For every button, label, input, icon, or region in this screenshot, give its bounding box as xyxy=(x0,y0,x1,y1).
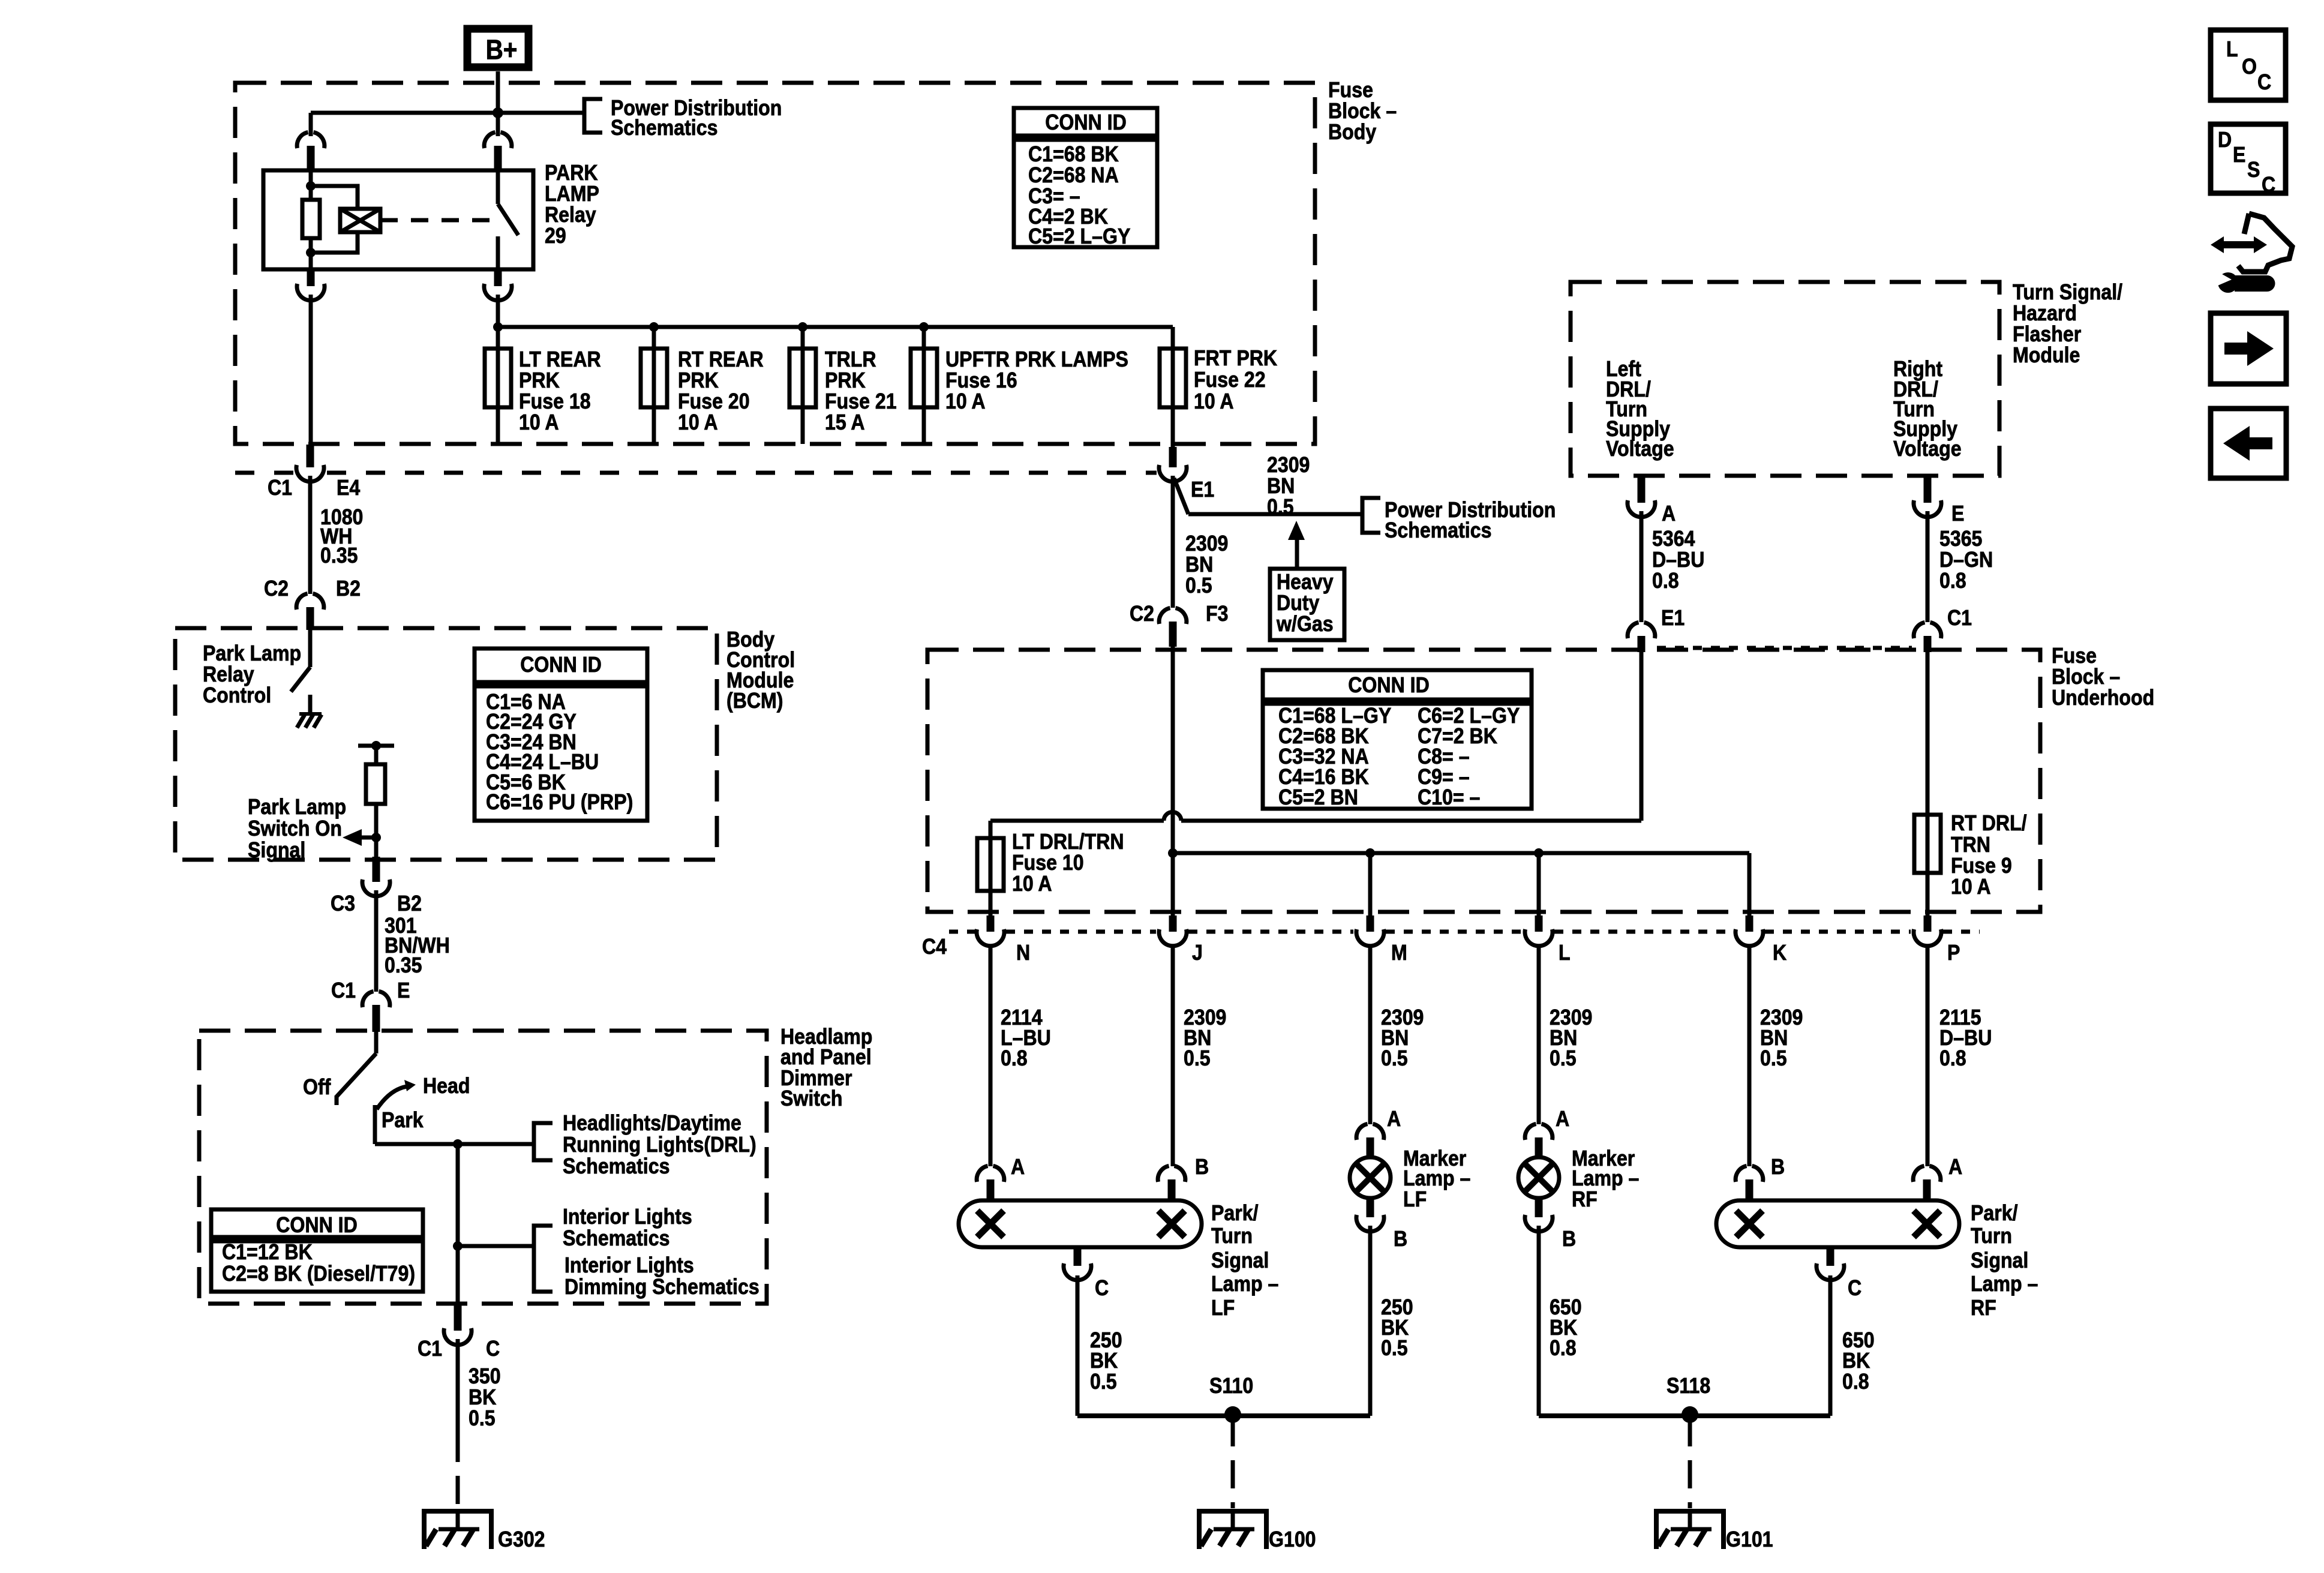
svg-text:Module: Module xyxy=(2013,343,2080,367)
ground G302 xyxy=(456,1509,460,1529)
svg-text:CONN ID: CONN ID xyxy=(276,1213,358,1237)
svg-text:C5=2 L–GY: C5=2 L–GY xyxy=(1028,224,1130,248)
svg-text:A: A xyxy=(1662,502,1676,526)
wire into relay switch connector xyxy=(496,113,500,136)
svg-text:M: M xyxy=(1391,941,1407,965)
wire from B+ down xyxy=(496,71,500,113)
ground G100 xyxy=(1231,1509,1235,1529)
svg-text:C2=8 BK (Diesel/T79): C2=8 BK (Diesel/T79) xyxy=(222,1262,415,1286)
svg-text:0.5: 0.5 xyxy=(1550,1046,1577,1070)
svg-text:Lamp –: Lamp – xyxy=(1211,1272,1278,1296)
underhood conn id table xyxy=(1263,670,1532,700)
turn signal/hazard flasher module dashed box xyxy=(1571,282,1999,476)
svg-text:RF: RF xyxy=(1572,1187,1598,1211)
svg-text:C3: C3 xyxy=(331,891,355,915)
wire J down to lamp B xyxy=(1171,945,1175,1166)
heavy duty w/gas box xyxy=(1270,569,1344,640)
svg-text:C4: C4 xyxy=(922,935,947,959)
svg-text:C: C xyxy=(2257,70,2271,94)
DRL feed bus (line B) xyxy=(1173,851,1749,855)
LF park/turn signal lamp body xyxy=(959,1200,1202,1247)
svg-text:Headlights/Daytime: Headlights/Daytime xyxy=(563,1111,741,1135)
S118 splice bus xyxy=(1539,1413,1830,1418)
connector below relay coil xyxy=(307,269,315,272)
wire 5365 down xyxy=(1926,511,1930,622)
svg-text:B2: B2 xyxy=(397,891,422,915)
svg-text:Running Lights(DRL): Running Lights(DRL) xyxy=(563,1133,756,1157)
headlamp dimmer switch dashed box xyxy=(199,1031,767,1304)
connector A (RF park/turn) xyxy=(1913,1166,1941,1182)
svg-text:A: A xyxy=(1011,1155,1025,1179)
wire 301 BN/WH down xyxy=(374,890,379,992)
svg-text:Schematics: Schematics xyxy=(563,1226,669,1250)
connector B (RF park/turn) xyxy=(1736,1166,1763,1182)
connector A (LF park/turn) xyxy=(977,1166,1004,1182)
wire E1 down to C2/F3 xyxy=(1171,476,1175,608)
dimmer conn id table xyxy=(211,1209,423,1237)
ground G101 xyxy=(1688,1509,1692,1529)
svg-text:0.8: 0.8 xyxy=(1001,1046,1028,1070)
off-page bracket (interior lights) xyxy=(534,1226,553,1292)
connector C2/F3 xyxy=(1159,608,1187,624)
S110 splice bus xyxy=(1077,1413,1370,1418)
LT DRL/TRN fuse 10 xyxy=(977,838,1004,891)
connector K xyxy=(1736,929,1763,946)
wire L down to marker lamp RF xyxy=(1537,945,1541,1124)
svg-text:C1=12 BK: C1=12 BK xyxy=(222,1240,313,1264)
wire across top of relay xyxy=(311,111,498,115)
connector C1 (underhood) xyxy=(1914,622,1941,638)
svg-text:10 A: 10 A xyxy=(519,410,559,434)
svg-text:10 A: 10 A xyxy=(1194,389,1234,413)
LOC icon box xyxy=(2211,30,2286,100)
svg-text:C1: C1 xyxy=(331,978,356,1002)
svg-text:Park: Park xyxy=(382,1108,424,1132)
hop over BCM feed wire xyxy=(1164,812,1181,821)
node junction at B+ tap xyxy=(493,107,503,118)
dimmer switch blade to Off xyxy=(337,1053,376,1105)
svg-text:E1: E1 xyxy=(1191,478,1214,502)
off-page bracket (power distribution top) xyxy=(584,99,602,133)
wire to interior lights bracket xyxy=(458,1244,534,1248)
fuse 18 xyxy=(496,327,500,349)
module connector E xyxy=(1924,476,1932,487)
svg-text:Schematics: Schematics xyxy=(563,1154,669,1178)
svg-text:K: K xyxy=(1773,941,1786,965)
svg-text:LF: LF xyxy=(1403,1187,1427,1211)
wire 350 BK down xyxy=(456,1339,460,1434)
wire from relay output to fuse bus xyxy=(496,295,500,327)
svg-text:J: J xyxy=(1192,941,1203,965)
svg-text:C2: C2 xyxy=(1130,602,1154,626)
svg-text:10 A: 10 A xyxy=(1951,875,1991,899)
signal resistor xyxy=(366,764,385,804)
fuse block underhood dashed box xyxy=(927,650,2040,912)
body control module dashed box xyxy=(175,628,717,860)
svg-text:0.8: 0.8 xyxy=(1939,569,1966,593)
svg-text:Signal: Signal xyxy=(1211,1248,1269,1272)
BCM conn id table xyxy=(475,649,647,682)
wire park contact to DRL bracket xyxy=(375,1142,534,1146)
service icon outline xyxy=(2238,214,2292,272)
connector B (marker LF) xyxy=(1367,1198,1374,1201)
wire C down to splice bus xyxy=(1828,1275,1833,1416)
svg-text:15 A: 15 A xyxy=(825,410,865,434)
svg-text:C1: C1 xyxy=(268,476,292,500)
park lamp relay 29 box xyxy=(263,170,533,269)
verticals from line B xyxy=(1171,853,1175,917)
svg-text:0.8: 0.8 xyxy=(1550,1336,1577,1360)
svg-text:10 A: 10 A xyxy=(678,410,718,434)
svg-text:B: B xyxy=(1195,1155,1209,1179)
svg-text:0.5: 0.5 xyxy=(1760,1046,1787,1070)
fuse 16 xyxy=(922,327,926,349)
svg-text:C: C xyxy=(1095,1276,1109,1300)
RF lamp filament X marks xyxy=(1736,1211,1762,1237)
LF lamp filament X marks xyxy=(977,1211,1004,1237)
connector C1/E4 xyxy=(307,445,314,451)
svg-text:G302: G302 xyxy=(498,1527,545,1551)
wire C down to splice bus xyxy=(1076,1275,1080,1416)
right arrow icon xyxy=(2211,313,2286,384)
BCM switch lower contact xyxy=(308,695,313,713)
wire from relay coil output down xyxy=(309,295,313,445)
marker lamp RF bulb xyxy=(1535,1154,1543,1158)
svg-text:F3: F3 xyxy=(1206,602,1228,626)
svg-text:E: E xyxy=(2233,143,2245,167)
svg-text:10 A: 10 A xyxy=(1012,872,1052,896)
service icon wrench xyxy=(2218,272,2238,293)
svg-text:S: S xyxy=(2247,158,2260,182)
fuse bus wire xyxy=(498,325,1173,329)
wire 1080 WH down xyxy=(308,476,313,594)
svg-text:C: C xyxy=(1848,1276,1861,1300)
svg-text:G100: G100 xyxy=(1269,1527,1316,1551)
svg-text:Control: Control xyxy=(203,683,271,707)
connector C1/C xyxy=(454,1304,462,1314)
svg-text:Head: Head xyxy=(423,1074,470,1098)
svg-text:Signal: Signal xyxy=(1971,1248,2028,1272)
svg-text:B: B xyxy=(1394,1227,1407,1251)
svg-text:C1: C1 xyxy=(1947,606,1972,630)
connector P xyxy=(1914,929,1941,946)
svg-text:0.8: 0.8 xyxy=(1842,1370,1869,1394)
relay coil symbol (box with X) xyxy=(340,209,380,232)
svg-text:A: A xyxy=(1948,1155,1962,1179)
svg-text:RF: RF xyxy=(1971,1296,1996,1320)
svg-text:Switch On: Switch On xyxy=(248,816,342,840)
park contact wire xyxy=(373,1105,377,1144)
svg-text:P: P xyxy=(1947,941,1960,965)
wire down to C1/C xyxy=(456,1246,460,1304)
svg-text:E: E xyxy=(397,978,410,1002)
dashed lead to G302 xyxy=(456,1434,460,1508)
svg-text:w/Gas: w/Gas xyxy=(1276,612,1333,636)
relay switch contact wires xyxy=(496,170,500,204)
body harness dotted boundary xyxy=(235,471,294,475)
svg-text:Lamp –: Lamp – xyxy=(1971,1272,2038,1296)
heavy duty w/gas arrow xyxy=(1295,539,1299,567)
RT DRL/TRN fuse 9 xyxy=(1914,815,1941,873)
B+ terminal box xyxy=(467,29,529,67)
svg-text:A: A xyxy=(1556,1107,1569,1131)
svg-text:CONN ID: CONN ID xyxy=(520,653,602,677)
connector E1 (body) xyxy=(1169,447,1177,451)
connector B (LF park/turn) xyxy=(1158,1166,1185,1182)
fuse 21 xyxy=(801,327,805,349)
module connector A xyxy=(1638,476,1646,487)
connector C (LF park/turn) xyxy=(1074,1247,1082,1251)
svg-text:FRT PRK: FRT PRK xyxy=(1194,346,1277,370)
svg-text:0.35: 0.35 xyxy=(385,953,422,977)
svg-text:Voltage: Voltage xyxy=(1893,437,1962,461)
wire from C2/F3 down through hop to line B xyxy=(1171,638,1175,853)
svg-text:A: A xyxy=(1387,1107,1401,1131)
connector E1 (underhood) xyxy=(1628,622,1655,638)
connector J xyxy=(1159,929,1187,946)
svg-text:O: O xyxy=(2242,55,2257,79)
connector M xyxy=(1356,929,1384,946)
relay switch blade xyxy=(498,204,518,235)
coil parallel loop wire xyxy=(311,186,358,253)
svg-text:0.8: 0.8 xyxy=(1939,1046,1966,1070)
underhood connector row dotted boundary xyxy=(949,930,975,934)
svg-text:0.5: 0.5 xyxy=(1185,574,1212,598)
wire to power distribution bracket xyxy=(498,111,582,115)
svg-text:Interior Lights: Interior Lights xyxy=(565,1253,694,1277)
svg-text:D: D xyxy=(2218,128,2232,152)
dashed lead to G100 xyxy=(1231,1418,1235,1508)
svg-text:Switch: Switch xyxy=(780,1086,842,1110)
svg-text:S118: S118 xyxy=(1667,1374,1710,1398)
svg-text:C1: C1 xyxy=(418,1337,442,1361)
svg-text:N: N xyxy=(1016,941,1030,965)
wire 5364 down xyxy=(1640,511,1644,622)
park lamp switch on signal arrow xyxy=(362,836,376,840)
fuse 22 xyxy=(1171,327,1175,349)
svg-text:Body: Body xyxy=(1328,120,1376,144)
connector A (marker LF) xyxy=(1356,1124,1384,1140)
relay coil branch wire xyxy=(309,170,313,269)
connector at relay switch input xyxy=(484,132,512,148)
svg-text:G101: G101 xyxy=(1726,1527,1773,1551)
fuse block body dashed box xyxy=(235,83,1315,444)
svg-text:Interior Lights: Interior Lights xyxy=(563,1205,692,1229)
svg-text:0.5: 0.5 xyxy=(469,1406,496,1430)
connector C3/B2 xyxy=(373,857,380,866)
left arrow icon xyxy=(2211,409,2286,478)
service icon double arrow xyxy=(2222,241,2256,248)
connector C2/B2 xyxy=(296,593,324,610)
connector C (RF park/turn) xyxy=(1827,1247,1834,1251)
svg-text:0.35: 0.35 xyxy=(320,544,358,568)
svg-text:L: L xyxy=(1559,941,1571,965)
svg-text:L: L xyxy=(2226,37,2238,61)
svg-text:C5=2 BN: C5=2 BN xyxy=(1278,785,1358,809)
svg-text:C: C xyxy=(486,1337,500,1361)
svg-text:10 A: 10 A xyxy=(945,389,986,413)
svg-text:Dimming Schematics: Dimming Schematics xyxy=(565,1275,759,1299)
wire from C1 to fuse 9 xyxy=(1926,652,1930,815)
svg-text:Schematics: Schematics xyxy=(611,116,717,140)
wire marker LF down to bus xyxy=(1368,1226,1373,1416)
svg-text:LF: LF xyxy=(1211,1296,1235,1320)
svg-text:0.5: 0.5 xyxy=(1184,1046,1211,1070)
svg-text:29: 29 xyxy=(545,224,566,248)
off-page bracket (DRL schematics) xyxy=(534,1123,553,1160)
connector A (marker RF) xyxy=(1525,1124,1553,1140)
marker lamp LF bulb xyxy=(1367,1154,1374,1158)
wire marker RF down to bus xyxy=(1537,1226,1541,1416)
svg-text:Off: Off xyxy=(303,1075,331,1099)
connector L xyxy=(1525,929,1553,946)
park lamp switch signal T-bar xyxy=(358,744,394,748)
RF park/turn signal lamp body xyxy=(1716,1200,1959,1247)
svg-text:CONN ID: CONN ID xyxy=(1045,110,1127,134)
svg-text:Schematics: Schematics xyxy=(1385,518,1491,542)
svg-text:B: B xyxy=(1771,1155,1785,1179)
svg-text:E: E xyxy=(1951,502,1964,526)
wire N down to lamp A xyxy=(989,945,993,1166)
svg-text:0.5: 0.5 xyxy=(1090,1370,1117,1394)
wire into relay coil connector xyxy=(309,113,313,136)
relay coil resistor element xyxy=(302,200,320,238)
wire down to interior lights tap xyxy=(456,1144,460,1246)
svg-text:C10= –: C10= – xyxy=(1418,785,1480,809)
svg-text:Turn: Turn xyxy=(1211,1224,1253,1248)
BCM switch blade xyxy=(291,667,310,692)
svg-text:0.5: 0.5 xyxy=(1381,1336,1408,1360)
dotted link between E1 and C1 xyxy=(1657,646,1912,650)
svg-text:E4: E4 xyxy=(337,476,360,500)
svg-text:S110: S110 xyxy=(1209,1374,1253,1398)
dashed lead to G101 xyxy=(1688,1418,1692,1508)
svg-text:B+: B+ xyxy=(486,35,518,65)
svg-text:C2: C2 xyxy=(264,577,289,601)
connector below relay switch xyxy=(494,269,502,272)
svg-text:Park/: Park/ xyxy=(1211,1201,1259,1225)
svg-text:Park/: Park/ xyxy=(1971,1201,2018,1225)
svg-text:RT DRL/: RT DRL/ xyxy=(1951,811,2027,835)
svg-text:CONN ID: CONN ID xyxy=(1348,673,1430,697)
BCM driver switch wire xyxy=(308,623,313,667)
svg-text:C6=16 PU (PRP): C6=16 PU (PRP) xyxy=(486,790,633,814)
svg-text:0.5: 0.5 xyxy=(1381,1046,1408,1070)
svg-text:Turn: Turn xyxy=(1971,1224,2012,1248)
connector C1/E xyxy=(362,991,390,1007)
svg-text:E1: E1 xyxy=(1661,606,1685,630)
svg-text:Voltage: Voltage xyxy=(1606,437,1674,461)
fuse 20 xyxy=(652,327,656,349)
svg-text:0.8: 0.8 xyxy=(1652,569,1679,593)
wire K down to lamp B xyxy=(1747,945,1752,1166)
svg-text:(BCM): (BCM) xyxy=(726,689,783,713)
body conn id table box xyxy=(1014,108,1157,136)
wire P down to lamp A xyxy=(1926,945,1930,1166)
dashed actuation link xyxy=(380,218,492,223)
connector N xyxy=(977,929,1004,946)
DESC icon box xyxy=(2211,124,2286,193)
head position arrow xyxy=(377,1086,407,1109)
svg-text:Underhood: Underhood xyxy=(2052,686,2154,710)
off-page bracket (power distribution mid) xyxy=(1362,498,1380,533)
wire from E1 down and across (line A) xyxy=(1640,652,1644,821)
BCM internal chassis ground xyxy=(299,712,322,716)
svg-text:B: B xyxy=(1562,1227,1576,1251)
wire M down to marker lamp xyxy=(1368,945,1373,1124)
E1 diagonal to power distribution xyxy=(1174,478,1188,514)
connector at relay coil input xyxy=(297,132,325,148)
svg-text:Fuse 22: Fuse 22 xyxy=(1194,368,1266,392)
connector B (marker RF) xyxy=(1535,1198,1543,1201)
svg-text:Park Lamp: Park Lamp xyxy=(248,795,346,819)
svg-text:B2: B2 xyxy=(336,577,361,601)
